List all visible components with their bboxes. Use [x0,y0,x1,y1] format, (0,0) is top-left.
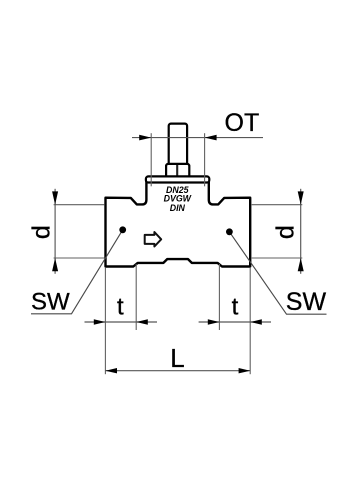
OT extension line left [150,133,152,186]
t dimension line right [199,321,271,323]
d right arrow bottom [298,258,304,271]
t left arrow a [94,319,106,324]
OT extension line right [204,133,206,186]
svg-text:OT: OT [225,109,260,137]
flange [146,176,209,182]
L extension line right [249,268,251,374]
svg-text:SW: SW [286,288,327,316]
d dimension right line [300,189,302,274]
t extension line right [218,264,220,330]
SW dot left [119,226,126,233]
stem (top spigot) [169,124,187,169]
SW leader right [229,232,326,314]
d left arrow bottom [52,258,58,271]
svg-text:DVGW: DVGW [164,193,192,203]
L arrow left [105,368,117,373]
valve body outline [106,181,251,267]
svg-text:d: d [272,225,300,239]
OT dimension line [132,137,263,139]
t dimension line left [85,321,158,323]
t left arrow b [136,319,148,324]
svg-text:L: L [170,343,184,373]
t extension line left [135,264,137,330]
d dimension left: extension lines [54,204,105,206]
svg-text:d: d [28,225,56,239]
flow direction arrow [145,232,162,247]
t right arrow b [250,319,262,324]
svg-text:SW: SW [31,288,70,315]
d dimension left line [54,189,56,274]
OT arrow right [205,135,217,141]
hex nut [166,164,189,180]
svg-text:t: t [232,294,239,321]
OT arrow left [139,135,151,141]
d right arrow top [298,191,304,204]
d left arrow top [52,191,58,204]
nut facet line [176,165,178,178]
svg-text:t: t [117,294,124,321]
L arrow right [239,368,251,373]
L extension line left [104,268,106,374]
SW leader left [31,230,123,314]
d dimension right: extension lines [252,204,303,206]
svg-text:DIN: DIN [170,203,186,213]
L dimension line [105,370,250,372]
SW dot right [226,228,233,235]
t right arrow a [208,319,220,324]
